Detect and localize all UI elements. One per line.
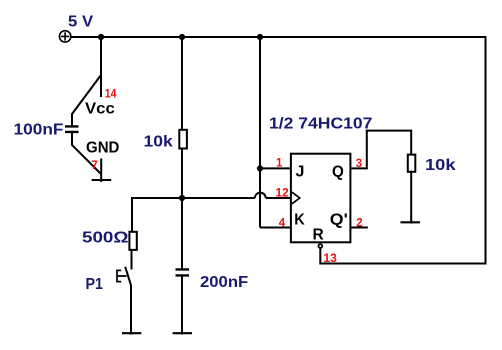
resistor R3 10k	[408, 155, 416, 172]
svg-text:5 V: 5 V	[68, 14, 93, 31]
svg-text:R: R	[313, 227, 325, 244]
power terminal +5V	[59, 31, 70, 42]
wire pin 4 (K)	[260, 227, 291, 229]
svg-text:Q: Q	[332, 163, 344, 180]
svg-text:J: J	[296, 163, 305, 180]
svg-text:100nF: 100nF	[14, 122, 64, 139]
ground (R3)	[401, 221, 421, 223]
svg-text:200nF: 200nF	[200, 274, 248, 291]
pushbutton P1 blade	[125, 267, 131, 285]
svg-text:4: 4	[279, 217, 286, 229]
ground (P1)	[122, 332, 141, 334]
svg-text:10k: 10k	[144, 134, 173, 151]
wire right side (to R pin)	[485, 36, 487, 264]
resistor R2 500ohm	[129, 232, 136, 250]
svg-text:10k: 10k	[425, 157, 456, 174]
node dot (RC node)	[179, 195, 185, 201]
node dot top-left	[98, 34, 104, 40]
svg-text:P1: P1	[86, 276, 104, 293]
resistor R1 10k	[179, 130, 187, 149]
wire top rail	[71, 36, 486, 38]
clock triangle pin 12	[292, 192, 300, 204]
wire pin 1 (J)	[260, 167, 291, 169]
svg-text:500Ω: 500Ω	[82, 230, 129, 247]
node dot top-right	[257, 34, 263, 40]
wire hop over J/K rail	[255, 193, 266, 198]
wire P1 to ground	[130, 285, 132, 335]
wire 5V rail to R1	[181, 36, 183, 131]
wire C2 to ground	[181, 275, 183, 334]
wire pin 3 (Q) to R3	[350, 131, 411, 169]
pushbutton P1 actuator	[117, 270, 127, 281]
ground (C2)	[173, 332, 192, 334]
reset bubble pin 13	[318, 244, 322, 248]
svg-text:7: 7	[91, 160, 97, 172]
wire control node horizontal	[131, 197, 255, 199]
svg-text:14: 14	[105, 88, 117, 100]
wire C1 bottom to GND pin-7	[72, 132, 101, 174]
capacitor C2 200nF	[176, 269, 190, 275]
wire R3 to ground	[410, 171, 412, 224]
IC U1 1/2 74HC107 box	[291, 154, 351, 243]
svg-text:12: 12	[276, 188, 289, 200]
svg-text:GND: GND	[86, 140, 119, 157]
wire node to R2	[131, 197, 133, 233]
wire Vcc pin-14 stub	[100, 36, 102, 97]
wire R pin to right rail	[320, 247, 486, 264]
node dot top-mid	[179, 34, 185, 40]
wire J/K rail (from 5V)	[259, 36, 261, 228]
svg-text:Vcc: Vcc	[85, 101, 115, 118]
node dot pin1	[257, 165, 263, 171]
pin-7 stub	[100, 159, 102, 183]
wire pin 2 (Q') stub	[350, 227, 368, 229]
svg-text:K: K	[294, 212, 305, 229]
svg-text:1/2 74HC107: 1/2 74HC107	[269, 115, 373, 132]
wire hop to clock pin	[266, 197, 291, 199]
wire diagonal to C1 top	[72, 75, 101, 127]
ground (pin 7)	[92, 179, 112, 181]
svg-text:Q': Q'	[330, 212, 348, 229]
capacitor C1 100nF	[65, 126, 79, 131]
wire R1 bottom to node / C2	[181, 148, 183, 270]
svg-text:1: 1	[276, 157, 283, 169]
wire R2 bottom to P1	[131, 249, 133, 270]
